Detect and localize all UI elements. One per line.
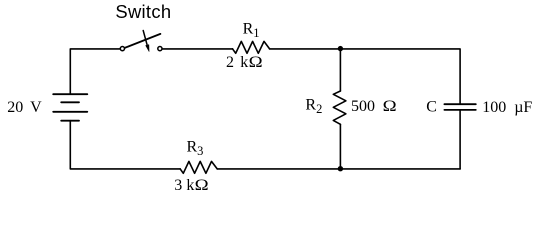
svg-text:2: 2 (226, 54, 234, 71)
svg-text:Ω: Ω (383, 98, 397, 115)
svg-text:100: 100 (482, 99, 506, 116)
svg-text:Switch: Switch (115, 1, 171, 22)
svg-text:Ω: Ω (195, 177, 209, 194)
wire capacitor bottom to bottom-right corner (459, 111, 461, 169)
svg-text:R2: R2 (305, 97, 322, 117)
wire R1 to top-right corner down to capacitor (270, 49, 461, 104)
wire bottom: right corner to R3 (217, 168, 460, 170)
node dot top (R2/C junction) (338, 46, 343, 51)
node dot bottom (R2/C junction) (338, 166, 343, 171)
switch terminal circle right (158, 47, 162, 51)
svg-text:500: 500 (351, 98, 375, 115)
svg-text:k: k (240, 54, 248, 71)
wire R2 branch top (339, 49, 341, 91)
resistor R3 (180, 161, 217, 173)
svg-text:Ω: Ω (249, 54, 263, 71)
resistor R1 (233, 41, 270, 53)
svg-text:R3: R3 (187, 139, 204, 159)
svg-text:3: 3 (174, 177, 182, 194)
battery B1 plate long top (53, 93, 87, 95)
resistor R2 (333, 91, 346, 124)
wire switch to R1 (163, 48, 233, 50)
switch arrowhead (146, 45, 150, 52)
capacitor C plate top (444, 103, 475, 105)
capacitor C plate bottom (444, 109, 475, 111)
switch terminal circle left (120, 47, 124, 51)
battery B1 plate short upper (61, 101, 79, 103)
svg-text:R1: R1 (243, 21, 260, 41)
switch actuation arrow (143, 31, 147, 45)
switch blade (124, 34, 160, 48)
wire R2 branch bottom (339, 124, 341, 169)
wire left-top: battery positive up to top-left corner and to switch (70, 49, 119, 94)
wire bottom: R3 to bottom-left corner up to battery negative (70, 121, 180, 169)
svg-text:V: V (30, 99, 42, 116)
svg-text:C: C (426, 99, 437, 116)
battery B1 plate long lower (53, 111, 87, 113)
svg-text:20: 20 (7, 99, 23, 116)
battery B1 plate short bottom (61, 120, 79, 122)
svg-text:µF: µF (514, 99, 532, 116)
svg-text:k: k (186, 177, 194, 194)
